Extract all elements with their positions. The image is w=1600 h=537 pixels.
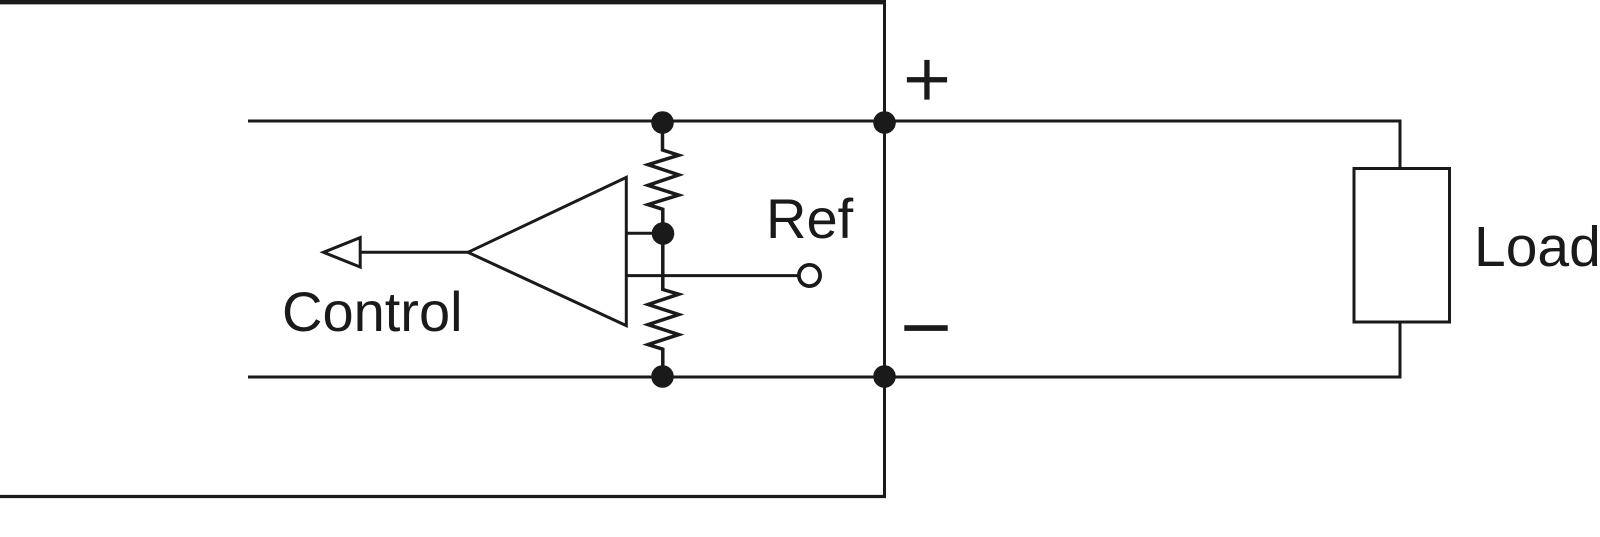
op-amp U1 (error amplifier) xyxy=(468,177,626,325)
Ref terminal (open circle) xyxy=(799,265,820,286)
junction node divider top xyxy=(651,111,674,134)
resistor R1 (upper divider) xyxy=(648,123,679,234)
arrowhead control output xyxy=(324,238,361,267)
junction node divider bottom xyxy=(651,365,674,388)
svg-text:Ref: Ref xyxy=(766,187,854,250)
resistor R2 (lower divider) xyxy=(648,234,679,377)
junction node - output xyxy=(873,365,896,388)
svg-text:Control: Control xyxy=(282,280,463,343)
wire Ref input xyxy=(626,274,798,277)
wire - rail xyxy=(248,376,1402,379)
wire load bottom connector xyxy=(1399,321,1402,379)
wire load top connector xyxy=(1399,120,1402,171)
svg-text:Load: Load xyxy=(1474,215,1600,279)
wire control output shaft xyxy=(359,251,469,254)
enclosure box (regulator outline) xyxy=(0,0,886,497)
load resistor (Load) xyxy=(1354,169,1450,323)
wire + rail xyxy=(248,120,1402,123)
junction node + output xyxy=(873,111,896,134)
+ terminal label xyxy=(907,60,947,100)
junction node divider midpoint xyxy=(652,222,675,245)
- terminal label xyxy=(904,325,947,331)
wire op-amp sense input stub xyxy=(626,232,663,235)
